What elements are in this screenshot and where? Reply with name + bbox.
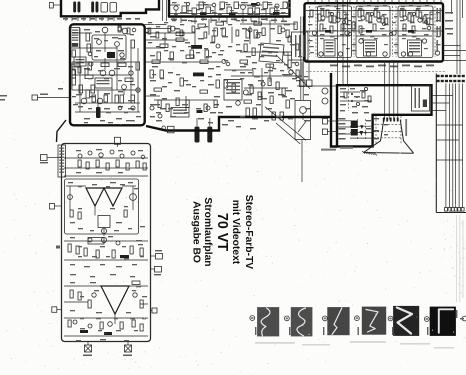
label near A bottom-left bbox=[58, 88, 63, 90]
labels under C terminals bbox=[83, 355, 132, 357]
relay box 1 on block E bbox=[101, 3, 108, 13]
center dark bar 3 bbox=[197, 110, 203, 113]
center wires bbox=[145, 19, 338, 182]
label row under block B bbox=[330, 65, 434, 68]
vertical bus wire x337 bbox=[337, 0, 339, 85]
choke L3 bbox=[91, 2, 94, 13]
waveform scope thumbnail 5 bbox=[393, 306, 419, 336]
wire from A top edge to vertical pair bbox=[145, 23, 167, 25]
block D extra parts bbox=[344, 87, 371, 105]
connector feet bbox=[445, 208, 464, 212]
waveform side labels bbox=[255, 310, 464, 335]
block A extra parts 2 bbox=[72, 26, 136, 75]
block C text smudges bbox=[68, 149, 143, 341]
block C extra smudges bbox=[78, 184, 147, 331]
right edge gray streaks bbox=[457, 215, 464, 302]
block A transistors bbox=[81, 27, 140, 104]
junction node d bbox=[243, 90, 248, 95]
block A lower box bbox=[95, 78, 112, 88]
block C top row components bbox=[64, 150, 148, 176]
thick chassis path bbox=[146, 73, 337, 147]
junction node f bbox=[162, 126, 166, 130]
block C inner amp box bbox=[65, 179, 139, 234]
op-amp triangle 2 bbox=[104, 188, 122, 206]
CRT left components bbox=[350, 119, 374, 140]
block T1 bottom border bbox=[168, 15, 291, 17]
connector top pads row 1 bbox=[437, 75, 465, 77]
circled node Q bbox=[322, 98, 328, 104]
diagonal wire 2 bbox=[276, 55, 310, 89]
block B extra components bbox=[321, 10, 430, 33]
junction node c bbox=[222, 59, 226, 63]
block A extra parts bbox=[72, 50, 135, 110]
title block rotated bbox=[191, 195, 255, 270]
electrolytic cap pair bbox=[195, 118, 213, 143]
waveform scope thumbnail 6 bbox=[430, 307, 456, 336]
junction node b bbox=[170, 26, 175, 31]
terminal right of C 2 bbox=[151, 267, 162, 276]
waveform scope thumbnail 2 bbox=[291, 307, 313, 336]
wire pair between E and T1 bbox=[163, 0, 167, 21]
junction node a bbox=[145, 28, 149, 32]
amp small parts bbox=[66, 186, 136, 236]
block B component scatter bbox=[306, 6, 442, 57]
relay box 2 on block E bbox=[110, 3, 117, 13]
driver box H bbox=[295, 101, 311, 140]
block D border bbox=[337, 85, 432, 146]
block B border bbox=[305, 3, 444, 61]
block A text smudges bbox=[76, 29, 135, 121]
power amp parts bbox=[64, 281, 148, 324]
terminal stub left of E bbox=[50, 3, 62, 9]
svg-text:Stereo-Farb-TV: Stereo-Farb-TV bbox=[243, 195, 254, 270]
block D text panel bbox=[412, 85, 430, 111]
block A wires bbox=[72, 28, 140, 112]
block D left labels bbox=[339, 118, 346, 140]
center dark bar 1 bbox=[191, 45, 202, 49]
block C bottom terminal 1 bbox=[85, 342, 92, 353]
circled node P bbox=[322, 88, 328, 94]
block A transformer bar bbox=[96, 107, 101, 118]
waveform circled number 5 bbox=[388, 316, 393, 321]
terminal left of C upper bbox=[40, 155, 62, 164]
block B smudge layer 2 bbox=[310, 5, 434, 53]
vertical bus wire x347 bbox=[347, 0, 349, 85]
center text box bbox=[171, 108, 189, 118]
center dark bar 2 bbox=[193, 73, 204, 77]
waveform circled number 7 partial bbox=[462, 316, 466, 321]
svg-text:Stromlaufplan: Stromlaufplan bbox=[202, 197, 213, 266]
svg-text:Ausgabe BO: Ausgabe BO bbox=[191, 201, 202, 263]
center small rect layer bbox=[148, 26, 299, 50]
connector top pads row 2 bbox=[437, 80, 465, 82]
CRT dashed envelope bbox=[374, 116, 402, 144]
IC box U2 in B2 bbox=[364, 40, 377, 56]
CRT vertical label bbox=[405, 119, 407, 136]
op-amp triangle 1 bbox=[86, 188, 104, 206]
vertical label column inside B right edge bbox=[437, 8, 441, 52]
IC box U3 in B3 bbox=[408, 40, 422, 56]
block C bottom terminal 2 bbox=[125, 342, 132, 353]
connector vertical wires bbox=[446, 84, 463, 208]
vertical wire pair top right bbox=[452, 0, 463, 74]
svg-text:mit Videotext: mit Videotext bbox=[230, 200, 241, 265]
choke L2 bbox=[78, 2, 81, 13]
svg-text:70 VT: 70 VT bbox=[214, 213, 230, 251]
block A resistors bbox=[72, 33, 140, 103]
sub-block B2 bbox=[356, 6, 390, 58]
waveform scope thumbnail 3 bbox=[327, 307, 349, 335]
terminal mark left bbox=[56, 246, 60, 249]
center resistors bbox=[150, 28, 289, 120]
T1 pin stubs and labels bbox=[171, 17, 287, 25]
block T1 right border bbox=[288, 0, 290, 17]
block A pulse box bbox=[74, 57, 86, 66]
block A dark component bbox=[107, 52, 115, 58]
block A border bbox=[70, 24, 145, 125]
CRT drive wires bbox=[385, 62, 398, 120]
sub-block B1 bbox=[318, 6, 352, 58]
block D interior parts bbox=[337, 85, 372, 136]
circled pin numbers in block B bbox=[312, 31, 439, 56]
label row under E bbox=[63, 18, 140, 20]
block E border (cut-off top-left module) bbox=[61, 0, 159, 16]
amp circle left bbox=[68, 195, 73, 200]
waveform circled number 4 bbox=[355, 316, 360, 321]
terminal left of C lower bbox=[52, 307, 62, 313]
vertical wire pair to box H bbox=[301, 17, 303, 101]
vertical label box G2 bbox=[292, 32, 309, 60]
block B extra circles bbox=[331, 13, 428, 36]
terminal t2 left of D bbox=[323, 129, 338, 135]
terminal t1 left of D bbox=[323, 119, 338, 125]
power op-amp triangle bbox=[101, 286, 129, 314]
terminal left of block A bbox=[0, 94, 70, 101]
terminal above block C bbox=[115, 137, 121, 147]
block B right edge labels bbox=[445, 12, 453, 35]
wires right of block B bbox=[443, 46, 466, 61]
T1 interior components bbox=[170, 2, 291, 17]
terminal right of C 1 bbox=[151, 250, 163, 259]
waveform scope thumbnail 1 bbox=[257, 307, 279, 336]
vertical bus wire x343 bbox=[342, 0, 344, 85]
amp circle right bbox=[130, 194, 137, 201]
connector left rail bbox=[435, 74, 437, 213]
CRT flare hatching bbox=[362, 151, 377, 155]
gray smudge under waveforms bbox=[255, 341, 454, 349]
CRT neck outline bbox=[364, 120, 414, 154]
center extra smudges bbox=[154, 24, 310, 123]
center smudge layer 3 bbox=[148, 20, 308, 87]
waveform circled number 6 bbox=[424, 317, 429, 322]
IC box U1 in B1 bbox=[324, 40, 335, 56]
center module box bbox=[224, 80, 242, 101]
connector bottom rail bbox=[436, 212, 466, 214]
block B top pin stubs bbox=[308, 0, 441, 3]
CRT electrode pads bbox=[383, 118, 399, 122]
block C border bbox=[62, 144, 151, 342]
thick tail at A bottom-left bbox=[64, 118, 70, 126]
block C bottom row bbox=[64, 318, 148, 336]
component on chassis line bbox=[168, 126, 175, 133]
block B text smudges bbox=[308, 8, 441, 45]
choke L1 bbox=[73, 2, 76, 13]
sub-block B3 bbox=[398, 6, 433, 58]
amp feedback box bbox=[98, 216, 110, 228]
waveform circled number 3 bbox=[323, 316, 328, 321]
waveform circled number 2 bbox=[285, 316, 290, 321]
waveform circled number 1 bbox=[250, 316, 255, 321]
connector cross wires bbox=[432, 96, 463, 161]
diagonal wire 1 bbox=[265, 107, 306, 141]
slanted label box G1 bbox=[259, 43, 284, 63]
dashed chassis line under block B bbox=[306, 71, 446, 73]
terminal right of C 3 bbox=[151, 308, 158, 313]
waveform scope thumbnail 4 bbox=[362, 307, 386, 335]
wires below block E bbox=[66, 16, 114, 21]
block T1 left border bbox=[168, 0, 170, 17]
terminal left of C mid bbox=[50, 204, 62, 210]
T1 smudge layer 2 bbox=[174, 2, 290, 15]
label FD086 bbox=[340, 147, 353, 149]
center extra parts bbox=[150, 22, 299, 118]
block C mid components bbox=[64, 237, 148, 260]
diagonal wire 3 bbox=[276, 123, 300, 144]
choke L4 bbox=[96, 2, 99, 13]
label -2937 bbox=[321, 149, 336, 151]
terminal pair below block B bbox=[300, 62, 313, 87]
block A info box bbox=[71, 28, 80, 49]
block A extra smudges bbox=[72, 34, 141, 123]
block C info box bbox=[58, 145, 66, 177]
junction node e bbox=[236, 101, 241, 106]
block D extra smudges bbox=[340, 88, 388, 139]
block A inner module box bbox=[92, 35, 126, 60]
center text smudges bbox=[150, 28, 293, 129]
